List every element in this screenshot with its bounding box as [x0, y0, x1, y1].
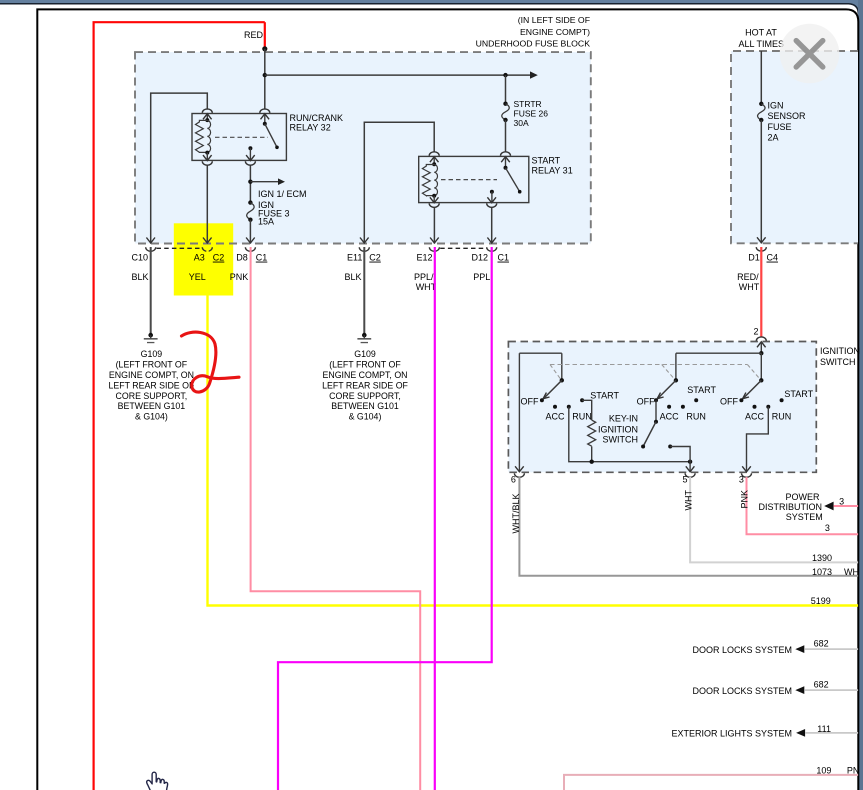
svg-text:RELAY 31: RELAY 31 [532, 166, 573, 176]
svg-text:D8: D8 [236, 253, 248, 263]
svg-text:(LEFT FRONT OF: (LEFT FRONT OF [329, 360, 401, 370]
underhood fuse block box border [135, 52, 591, 243]
ground G109 (right) [362, 333, 367, 338]
run/crank relay pin bumps+arrows [202, 109, 212, 113]
svg-text:109: 109 [816, 765, 831, 775]
svg-text:D12: D12 [472, 253, 489, 263]
contacts OFF/ACC/RUN/START [540, 398, 544, 402]
resistor in section 1 [582, 400, 592, 420]
svg-text:682: 682 [814, 680, 829, 690]
wire PPL/WHT from E12 [434, 247, 436, 790]
ignition switch section 3 pivot [759, 378, 763, 382]
svg-text:START: START [532, 156, 561, 166]
wire: start coil top to E11 route [364, 122, 434, 243]
svg-text:E12: E12 [417, 253, 433, 263]
wire: branch to STRTR fuse with arrow [265, 74, 531, 76]
wiper arm [744, 380, 761, 397]
fuse IGN SENSOR FUSE 2A [760, 51, 762, 104]
svg-text:& G104): & G104) [349, 412, 382, 422]
svg-text:ENGINE COMPT, ON: ENGINE COMPT, ON [109, 370, 194, 380]
hot-at-all-times fuse block box border [731, 51, 858, 243]
svg-text:C4: C4 [767, 253, 779, 263]
svg-text:A3: A3 [194, 253, 205, 263]
relay START RELAY 31 [419, 156, 529, 202]
svg-text:HOT AT: HOT AT [745, 27, 777, 37]
svg-text:YEL: YEL [189, 272, 206, 282]
svg-text:START: START [784, 389, 813, 399]
right window strip [858, 0, 863, 790]
svg-text:DOOR LOCKS SYSTEM: DOOR LOCKS SYSTEM [692, 645, 792, 655]
svg-text:RUN: RUN [686, 412, 706, 422]
wire: coil bottom to A3 [206, 165, 208, 244]
wire PPL from D12 [278, 247, 492, 790]
svg-text:ALL TIMES: ALL TIMES [739, 39, 785, 49]
svg-text:30A: 30A [514, 118, 529, 128]
svg-text:PN: PN [847, 765, 860, 775]
wire: RUN3 to pin 3 [747, 407, 769, 472]
svg-text:WHT/BLK: WHT/BLK [511, 493, 521, 533]
browser top bar [0, 0, 863, 16]
wire RED/WHT from D1 to ignition switch [760, 247, 762, 338]
svg-text:1390: 1390 [812, 553, 832, 563]
wiper arm [545, 380, 562, 397]
node: red/black junction [262, 46, 267, 51]
svg-text:IGNITION: IGNITION [598, 425, 638, 435]
svg-text:G109: G109 [141, 349, 163, 359]
wire WHT/BLK circuit 1073 from pin 6 [519, 477, 858, 576]
pin 2 entry [756, 337, 766, 341]
svg-text:ACC: ACC [660, 412, 680, 422]
svg-text:(IN LEFT SIDE OF: (IN LEFT SIDE OF [518, 15, 590, 25]
svg-text:WHT: WHT [739, 282, 760, 292]
svg-text:6: 6 [511, 474, 516, 484]
run/crank switch contact [264, 114, 266, 124]
ignition switch box [508, 342, 816, 473]
svg-text:C2: C2 [369, 253, 381, 263]
svg-text:BLK: BLK [345, 272, 362, 282]
connector bracket C2 (C10-A3) [157, 247, 203, 249]
svg-text:3: 3 [825, 523, 830, 533]
wire: feed bus inside switch [519, 353, 761, 380]
svg-text:111: 111 [817, 724, 831, 734]
start relay pin bumps+arrows [429, 152, 439, 156]
hot-at-all-times fuse block box fill [731, 51, 858, 243]
wire YEL 5199 from A3 [208, 247, 859, 606]
run/crank coil K1 [206, 114, 208, 121]
fuse STRTR FUSE 26 30A [505, 75, 507, 104]
mouse hand cursor [147, 772, 168, 790]
wire WHT circuit 1390 from pin 5 [690, 477, 858, 562]
svg-text:C2: C2 [213, 253, 225, 263]
svg-text:5199: 5199 [811, 596, 831, 606]
ignition switch section 1 pivot [560, 378, 564, 382]
wire: run/crank output to IGN fuse [249, 165, 251, 203]
svg-text:LEFT REAR SIDE OF: LEFT REAR SIDE OF [322, 380, 408, 390]
run/crank output contact [248, 146, 252, 150]
svg-text:DISTRIBUTION: DISTRIBUTION [758, 502, 822, 512]
connector pin bumps below fuse box [146, 247, 156, 251]
svg-text:BLK: BLK [132, 272, 149, 282]
svg-text:RED/: RED/ [737, 272, 759, 282]
svg-text:CORE SUPPORT,: CORE SUPPORT, [329, 391, 401, 401]
svg-text:RELAY 32: RELAY 32 [290, 123, 331, 133]
yellow highlight on A3/C2 YEL [174, 223, 233, 295]
wire BLK from E11 to G109 [363, 247, 365, 333]
svg-text:IGN 1/ ECM: IGN 1/ ECM [258, 189, 307, 199]
key-in ignition switch [655, 400, 657, 421]
start relay coil K2 [433, 156, 435, 164]
svg-text:WHT: WHT [416, 282, 437, 292]
wire: IGN 1 / ECM branch arrow [250, 181, 278, 183]
svg-text:EXTERIOR LIGHTS SYSTEM: EXTERIOR LIGHTS SYSTEM [671, 729, 792, 739]
wire PNK circuit 109 [564, 775, 858, 790]
svg-text:ENGINE COMPT): ENGINE COMPT) [520, 27, 590, 37]
wire PNK circuit 3 from pin 3 [747, 477, 859, 534]
svg-text:ACC: ACC [745, 412, 765, 422]
connector bracket C1 (E12-D12) [440, 247, 486, 249]
svg-text:IGNITION: IGNITION [820, 346, 860, 356]
wiper arm [659, 380, 676, 397]
svg-text:E11: E11 [347, 253, 362, 263]
svg-text:OFF: OFF [521, 396, 539, 406]
svg-text:PPL: PPL [473, 272, 490, 282]
wire: RED feed horizontal+left vertical [94, 22, 265, 790]
svg-text:(LEFT FRONT OF: (LEFT FRONT OF [116, 360, 188, 370]
relay RUN/CRANK RELAY 32 [192, 114, 286, 161]
ignition switch bottom pin bumps [514, 473, 524, 477]
svg-text:3: 3 [839, 497, 844, 507]
node: feed branch junction [263, 73, 267, 77]
wire: pin 6 drop [518, 353, 520, 472]
svg-text:D1: D1 [748, 253, 760, 263]
svg-text:15A: 15A [258, 217, 274, 227]
svg-text:5: 5 [682, 474, 687, 484]
svg-text:START: START [687, 385, 716, 395]
contacts OFF/ACC/RUN/START [739, 398, 743, 402]
start relay output contact [490, 190, 494, 194]
svg-text:RUN: RUN [772, 412, 792, 422]
svg-text:IGN: IGN [768, 101, 784, 111]
wire: coil top to C10 route [151, 93, 208, 243]
wire PNK from D8 [251, 247, 421, 790]
svg-text:RED: RED [244, 30, 264, 40]
svg-text:BETWEEN G101: BETWEEN G101 [331, 401, 399, 411]
ground G109 (left) [148, 333, 153, 338]
contacts OFF/ACC/RUN/START [654, 398, 658, 402]
wire: start relay output to D12 [491, 207, 493, 244]
fuse IGN FUSE 3 15A [248, 200, 252, 204]
svg-text:PNK: PNK [230, 272, 249, 282]
svg-text:C1: C1 [498, 253, 510, 263]
svg-text:3: 3 [739, 474, 744, 484]
mech linkage dashed [550, 364, 747, 366]
svg-text:ACC: ACC [545, 412, 565, 422]
svg-text:POWER: POWER [785, 492, 820, 502]
svg-text:SWITCH: SWITCH [820, 357, 856, 367]
svg-text:RUN: RUN [572, 412, 592, 422]
wire: RED drop to fuse block [264, 22, 266, 49]
svg-text:SWITCH: SWITCH [603, 435, 639, 445]
svg-text:OFF: OFF [637, 396, 655, 406]
svg-text:PPL/: PPL/ [414, 272, 434, 282]
svg-text:ENGINE COMPT, ON: ENGINE COMPT, ON [322, 370, 407, 380]
node: IGN1/ECM tap [248, 180, 252, 184]
svg-text:STRTR: STRTR [514, 99, 542, 109]
start relay switch contact [505, 156, 507, 167]
svg-text:2A: 2A [768, 133, 779, 143]
svg-text:UNDERHOOD FUSE BLOCK: UNDERHOOD FUSE BLOCK [476, 39, 591, 49]
svg-text:1073: 1073 [812, 567, 832, 577]
svg-text:FUSE: FUSE [768, 122, 792, 132]
wire BLK from C10 to G109 [150, 247, 152, 333]
svg-text:C10: C10 [132, 253, 149, 263]
pin D1 arrow+bump [757, 237, 766, 243]
svg-text:C1: C1 [256, 253, 268, 263]
svg-text:2: 2 [753, 327, 758, 337]
wire: start coil bottom to E12 [433, 207, 435, 244]
node: STRTR fuse tap [503, 73, 507, 77]
wire: feed into run/crank relay switch [264, 49, 266, 110]
svg-text:KEY-IN: KEY-IN [609, 414, 638, 424]
svg-text:START: START [590, 390, 619, 400]
connector pins C10/A3/D8/E11/E12/D12 arrows [146, 238, 155, 244]
wire: RUN1 to bus [569, 407, 690, 462]
run/crank relay mech dashed link [215, 136, 268, 138]
svg-text:LEFT REAR SIDE OF: LEFT REAR SIDE OF [108, 380, 194, 390]
svg-text:OFF: OFF [720, 396, 738, 406]
svg-text:682: 682 [814, 639, 829, 649]
svg-text:PNK: PNK [739, 490, 749, 509]
svg-text:& G104): & G104) [135, 412, 168, 422]
ignition switch section 2 pivot [674, 378, 678, 382]
underhood fuse block box fill [135, 52, 591, 243]
svg-text:WH: WH [844, 567, 859, 577]
svg-text:CORE SUPPORT,: CORE SUPPORT, [116, 391, 188, 401]
start relay mech dashed link [441, 179, 497, 181]
svg-text:DOOR LOCKS SYSTEM: DOOR LOCKS SYSTEM [692, 686, 792, 696]
svg-text:SYSTEM: SYSTEM [786, 512, 823, 522]
svg-text:WHT: WHT [683, 490, 693, 511]
hand-drawn red mark "2" [182, 332, 240, 392]
svg-text:SENSOR: SENSOR [768, 111, 807, 121]
close button [780, 24, 840, 84]
svg-text:G109: G109 [354, 349, 376, 359]
svg-text:BETWEEN G101: BETWEEN G101 [118, 401, 186, 411]
